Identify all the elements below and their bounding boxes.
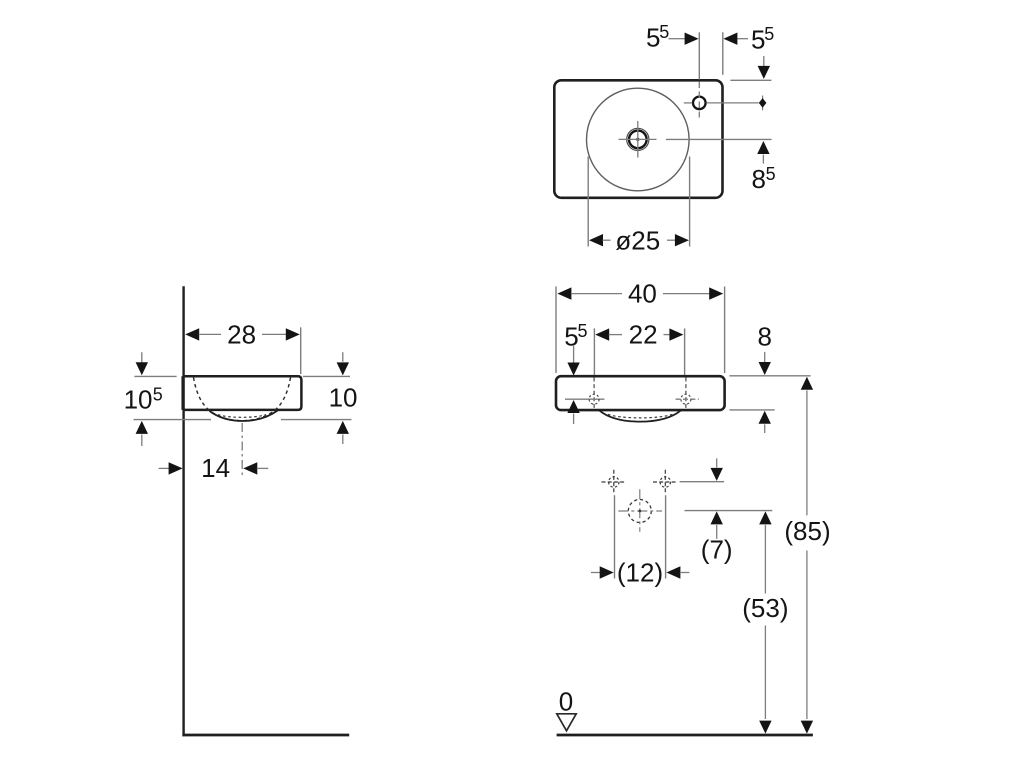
svg-text:40: 40	[628, 279, 657, 309]
tap hole circle	[693, 97, 706, 110]
bowl inner dashes front view	[608, 414, 673, 418]
svg-text:8: 8	[758, 322, 772, 352]
dimension (53) label	[742, 593, 788, 623]
drain circle dashed front view	[628, 500, 651, 523]
basin bowl circle	[587, 88, 690, 191]
svg-text:22: 22	[629, 320, 658, 350]
dimension 8.5 label	[752, 164, 776, 194]
mounting hole right	[653, 470, 678, 495]
dimension 8 up arrow	[759, 411, 771, 433]
washbasin outline top view	[554, 80, 722, 198]
svg-text:0: 0	[559, 687, 573, 717]
dimension 10 label	[329, 383, 358, 413]
svg-text:10: 10	[124, 385, 153, 415]
drain outer circle	[627, 128, 649, 150]
dimension (7) label	[701, 535, 733, 565]
svg-text:(85): (85)	[784, 516, 830, 546]
top edge reference line right	[729, 375, 810, 377]
dimension 5.5 horizontal arrow right	[669, 33, 699, 45]
bowl centerline side view	[241, 423, 243, 475]
tap hole line to diamond	[706, 102, 758, 104]
dimension 5.5 vertical label top right	[751, 24, 774, 54]
diameter 25 extension line left	[587, 157, 589, 247]
svg-text:10: 10	[329, 383, 358, 413]
bottom reference line right of profile	[281, 419, 352, 421]
mounting hole left	[602, 470, 627, 495]
dimension (53) line	[759, 511, 771, 733]
drain inner circle	[629, 131, 647, 149]
diameter 25 dimension arrows and label	[589, 225, 689, 255]
extension line right edge top	[722, 32, 724, 75]
bottom reference line left of wall	[134, 419, 212, 421]
drain crosshair horizontal	[619, 138, 657, 140]
svg-text:5: 5	[564, 322, 578, 352]
floor line right view	[557, 734, 813, 737]
drain crosshair vertical	[637, 121, 639, 158]
washbasin outline front view	[556, 376, 725, 410]
dimension 8 label	[758, 322, 772, 352]
top reference line left of wall	[134, 375, 176, 377]
dimension 22 extension line left	[593, 328, 595, 375]
wall line	[182, 286, 184, 736]
floor line left view	[182, 734, 349, 737]
dimension 5.5 front up arrow	[567, 400, 579, 424]
svg-text:5: 5	[764, 24, 774, 44]
dimension 10.5 down arrow	[136, 352, 148, 375]
dimension 5.5 front down arrow	[567, 346, 579, 376]
mounting hole reference line right	[680, 481, 725, 483]
dimension (7) down arrow	[711, 458, 723, 481]
dimension 5.5 horizontal label left	[646, 22, 669, 52]
dimension 5.5 front label	[564, 321, 587, 351]
dimension 10 up arrow	[337, 421, 349, 444]
top reference line right of profile	[303, 375, 350, 377]
dimension 5.5 horizontal arrow left	[723, 33, 748, 45]
svg-text:(12): (12)	[617, 558, 663, 588]
hidden bowl curve side view	[194, 378, 291, 421]
dimension 40 extension line right	[724, 287, 726, 374]
dimension 22	[595, 320, 683, 350]
datum 0 label	[559, 687, 573, 717]
dimension 28	[185, 319, 300, 349]
bowl inner dashes side view	[218, 415, 266, 418]
top edge extension line right	[730, 79, 771, 81]
basin profile side view	[183, 376, 302, 410]
svg-text:5: 5	[751, 25, 765, 55]
dimension 5.5 vertical down arrow	[758, 56, 770, 79]
dimension 10 down arrow	[337, 352, 349, 375]
datum triangle	[557, 714, 576, 731]
bottom edge reference line right	[729, 409, 774, 411]
drain reference line right	[685, 510, 773, 512]
svg-text:5: 5	[153, 384, 163, 404]
dimension (12)	[591, 558, 689, 588]
dimension 10.5 up arrow	[136, 421, 148, 446]
dimension 14	[159, 453, 269, 483]
mounting hole extension line left	[614, 495, 616, 578]
svg-text:5: 5	[659, 22, 669, 42]
svg-text:(53): (53)	[742, 593, 788, 623]
svg-text:5: 5	[646, 23, 660, 53]
tap hole crosshair right front view	[676, 378, 699, 410]
dimension 10.5 label	[124, 384, 163, 414]
dimension 8.5 up arrow	[757, 141, 769, 164]
drain crosshair front view	[618, 489, 662, 532]
svg-text:28: 28	[227, 319, 256, 349]
dimension 8 down arrow	[759, 352, 771, 375]
dimension (85) line	[801, 377, 813, 734]
svg-text:ø25: ø25	[615, 225, 660, 255]
tap hole crosshair left	[684, 102, 693, 104]
dimension 28 extension line right	[300, 327, 302, 374]
svg-text:(7): (7)	[701, 535, 733, 565]
svg-text:8: 8	[752, 164, 766, 194]
svg-text:14: 14	[201, 453, 230, 483]
dimension (85) label	[784, 516, 830, 546]
diamond marker	[759, 96, 767, 111]
drain centerline extension right	[666, 138, 772, 140]
dimension 22 extension line right	[684, 328, 686, 375]
drain center dot	[636, 138, 639, 141]
tap hole crosshair left front view	[565, 378, 604, 410]
visible bowl bottom side view	[210, 410, 278, 421]
tap centerline vertical extension	[698, 32, 700, 117]
diameter 25 extension line right	[689, 157, 691, 247]
dimension 40 extension line left	[555, 287, 557, 374]
dimension (7) up arrow	[711, 511, 723, 538]
dimension 40	[557, 279, 723, 309]
svg-text:5: 5	[766, 164, 776, 184]
mounting hole extension line right	[665, 495, 667, 578]
svg-text:5: 5	[578, 321, 588, 341]
visible bowl bottom front view	[599, 410, 681, 421]
